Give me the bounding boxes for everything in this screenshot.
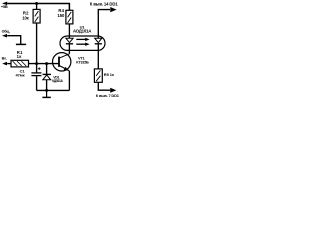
node junction dot base/VD1	[45, 62, 48, 65]
wire emitter down	[68, 71, 70, 91]
svg-text:КД521А: КД521А	[52, 79, 63, 83]
transistor VT1	[53, 53, 71, 71]
resistor R5	[94, 69, 102, 82]
wire R2 bottom lead to base node	[36, 23, 38, 64]
wire R5 bottom to pin 7	[98, 82, 110, 90]
svg-text:Вх.: Вх.	[2, 56, 7, 60]
svg-text:КТ315Б: КТ315Б	[76, 60, 89, 64]
node junction dot top rail	[35, 2, 38, 5]
wire top rail +5V	[7, 4, 69, 11]
svg-text:+5В: +5В	[1, 4, 8, 9]
diode photodiode of U1	[95, 38, 102, 44]
svg-text:К выв. 14 DD1: К выв. 14 DD1	[90, 2, 119, 7]
resistor R4	[66, 10, 73, 24]
diode VD1	[43, 64, 52, 91]
resistor R1	[11, 60, 29, 67]
node junction dot VD1/rail	[45, 89, 48, 92]
svg-text:Общ.: Общ.	[2, 30, 10, 34]
svg-text:АОД101А: АОД101А	[73, 29, 92, 34]
terminal arrow to pin 14 DD1	[110, 7, 116, 12]
wire input to R1	[7, 63, 11, 65]
light arrow 1	[76, 38, 89, 41]
capacitor C1	[31, 64, 41, 91]
wire R4 bottom lead to LED anode	[68, 24, 70, 38]
ground bottom	[42, 90, 50, 97]
plus sign of C1	[38, 67, 41, 70]
wire common to ground	[7, 36, 21, 44]
wire R2 top lead	[36, 4, 38, 10]
light arrow 2	[76, 43, 89, 46]
terminal arrow input Vkh	[2, 62, 7, 66]
resistor R2	[33, 9, 40, 23]
optocoupler U1 body	[60, 36, 105, 50]
terminal arrow +5V	[2, 2, 7, 6]
wire base wire	[29, 63, 59, 65]
wire photodiode cathode down to R5	[97, 44, 99, 69]
wire photodiode anode up to pin 14	[98, 10, 110, 39]
svg-text:47мк: 47мк	[16, 73, 25, 78]
diode LED of U1	[66, 38, 73, 54]
svg-text:К выв. 7 DD1: К выв. 7 DD1	[96, 93, 120, 98]
node junction dot base/R2/C1	[35, 62, 38, 65]
svg-text:150: 150	[58, 13, 65, 18]
svg-text:1к: 1к	[17, 54, 23, 59]
svg-text:10к: 10к	[22, 16, 29, 21]
svg-text:R5 1к: R5 1к	[104, 72, 114, 77]
ground bar top-left	[16, 43, 26, 45]
terminal arrow common (obshchiy)	[2, 34, 7, 38]
wire bottom rail	[37, 89, 70, 91]
terminal arrow to pin 7 DD1	[110, 88, 116, 93]
